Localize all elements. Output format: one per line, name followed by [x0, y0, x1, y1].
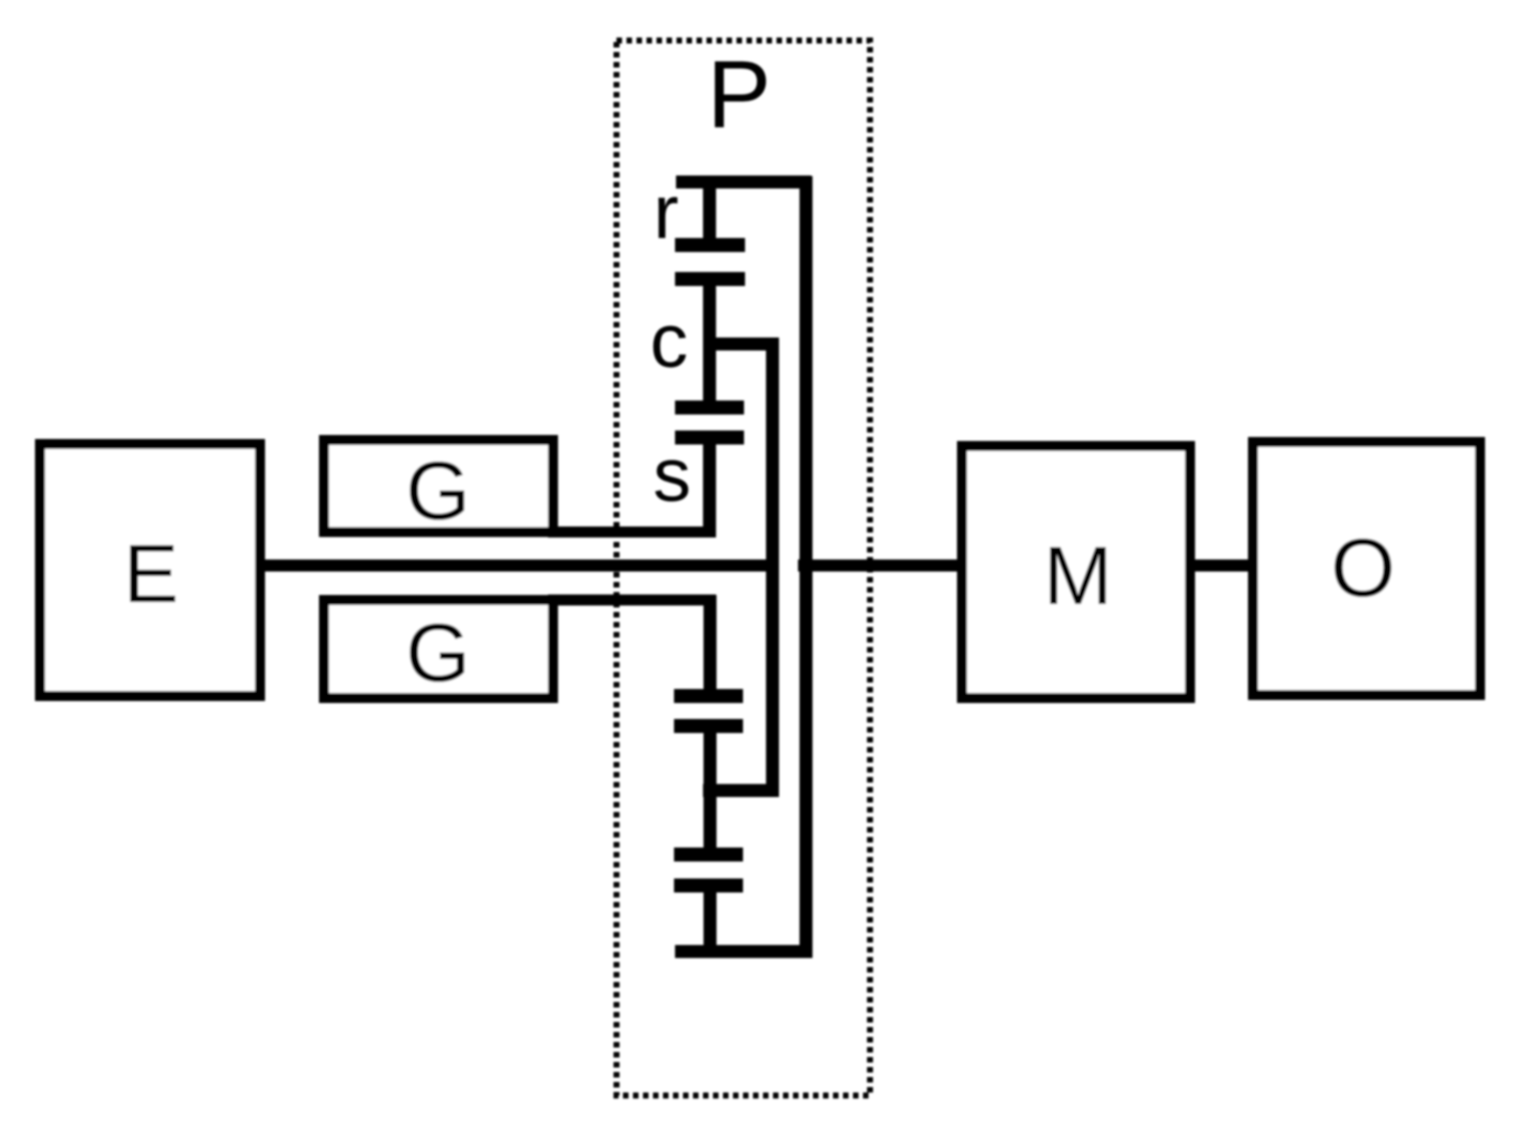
svg-text:c: c [650, 299, 688, 384]
svg-text:G: G [406, 606, 471, 699]
svg-text:P: P [707, 41, 771, 148]
svg-text:G: G [406, 444, 471, 537]
svg-text:M: M [1043, 529, 1112, 622]
svg-text:s: s [653, 433, 691, 518]
svg-text:r: r [653, 170, 678, 255]
svg-text:O: O [1331, 521, 1396, 614]
svg-text:E: E [123, 527, 178, 620]
